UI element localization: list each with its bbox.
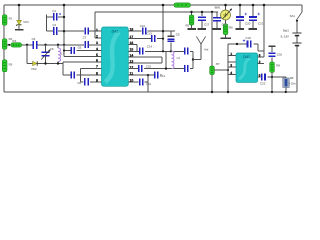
ground — [213, 28, 222, 30]
capacitor C12b — [139, 78, 141, 85]
wire C19 row — [228, 44, 264, 51]
svg-text:C1: C1 — [52, 9, 56, 13]
wire zener branch — [18, 5, 20, 30]
svg-text:9: 9 — [96, 78, 98, 82]
wire DA2 input rail — [227, 44, 229, 92]
inductor L2 — [172, 51, 174, 68]
wire pin4 row — [64, 50, 102, 52]
svg-text:BM1: BM1 — [215, 5, 221, 9]
svg-text:C21: C21 — [258, 21, 264, 25]
wire top supply rail — [4, 4, 302, 6]
svg-text:VD2: VD2 — [31, 67, 37, 71]
resistor R2 — [2, 39, 7, 49]
node top junction zener — [18, 4, 21, 7]
svg-text:SA1: SA1 — [290, 14, 296, 18]
svg-text:L2: L2 — [177, 56, 181, 60]
svg-text:Ant: Ant — [204, 48, 209, 52]
wire DA2 left pins — [228, 56, 236, 75]
capacitor C2 — [53, 27, 55, 35]
wire DA2 pin2 stub — [258, 63, 264, 65]
svg-text:R3: R3 — [9, 62, 13, 66]
resistor R4 — [11, 43, 22, 47]
wire volume rail — [211, 12, 213, 92]
wire tank right leg — [192, 51, 194, 68]
svg-text:6: 6 — [96, 59, 98, 63]
trimmer capacitor C5 — [45, 45, 47, 64]
svg-text:C14: C14 — [147, 44, 153, 48]
svg-text:C7: C7 — [83, 36, 87, 40]
svg-text:R6: R6 — [229, 25, 233, 29]
wire tank top row — [128, 50, 193, 52]
wire wiper row — [214, 69, 228, 71]
svg-text:C22: C22 — [260, 81, 266, 85]
wire C2 row / pin1 row — [47, 30, 102, 32]
wire left rail — [3, 5, 5, 92]
svg-text:4: 4 — [96, 47, 98, 51]
svg-text:R1: R1 — [9, 17, 13, 21]
capacitor C6 — [71, 47, 73, 54]
switch SA1 — [301, 5, 303, 12]
svg-text:C15: C15 — [146, 65, 152, 69]
capacitor C15 — [138, 65, 140, 72]
svg-text:L1: L1 — [61, 52, 65, 56]
IC DA2 — [236, 53, 258, 82]
capacitor hanging at IF rail end — [216, 12, 218, 29]
battery GB1 — [296, 21, 298, 92]
capacitor C13 — [151, 35, 153, 42]
svg-text:R7: R7 — [216, 62, 220, 66]
capacitor C3 — [33, 41, 35, 49]
svg-text:C5: C5 — [50, 47, 54, 51]
ground — [236, 28, 245, 30]
svg-text:7: 7 — [96, 65, 98, 69]
capacitor on pin8 row — [71, 72, 73, 79]
capacitor hanging on IF rail — [201, 12, 203, 29]
microphone BM1 — [221, 10, 231, 20]
capacitor C10 — [142, 28, 144, 35]
node junction on audio row — [26, 44, 28, 46]
svg-text:1: 1 — [96, 28, 98, 32]
svg-text:BF: BF — [290, 76, 294, 80]
wire pin8 branch — [63, 64, 102, 76]
ground — [220, 37, 231, 39]
wire pin14 pin13 link — [128, 57, 162, 63]
wire pin7 corner — [81, 68, 102, 82]
svg-text:2: 2 — [96, 35, 98, 39]
svg-text:C11: C11 — [146, 82, 151, 86]
svg-text:8: 8 — [96, 72, 98, 76]
wire osc rail — [162, 5, 164, 51]
wire bottom ground rail — [4, 91, 297, 93]
svg-text:DA2: DA2 — [243, 55, 250, 59]
resistor hanging on IF rail — [191, 12, 193, 29]
top filter electrolytic 2 — [252, 5, 254, 29]
svg-text:C13: C13 — [146, 32, 152, 36]
wire pin10 row — [128, 75, 148, 92]
wire tank bottom row — [128, 68, 193, 70]
wire C17 row — [258, 76, 272, 78]
svg-text:4: 4 — [230, 71, 232, 75]
wire mid rail — [63, 5, 65, 57]
svg-text:R9: R9 — [276, 63, 280, 67]
svg-text:C18: C18 — [222, 23, 228, 27]
capacitor C16 — [271, 46, 273, 52]
capacitor C9 — [170, 31, 172, 36]
wire pin5 row — [64, 56, 102, 58]
svg-text:5: 5 — [96, 53, 98, 57]
resistor R5 in supply rail — [174, 3, 190, 7]
svg-text:C12: C12 — [160, 74, 166, 78]
wire main audio row — [7, 44, 102, 46]
svg-text:C6: C6 — [78, 45, 82, 49]
svg-text:3: 3 — [96, 41, 98, 45]
svg-text:C2: C2 — [52, 23, 56, 27]
inductor L1 — [57, 45, 59, 64]
capacitor C17 — [261, 73, 263, 80]
top filter electrolytic 1 — [239, 5, 241, 29]
svg-text:C10: C10 — [140, 24, 146, 28]
wire pin11 row — [128, 74, 162, 76]
wire VD2 row — [27, 62, 102, 64]
capacitor C12 tank bottom — [184, 65, 186, 72]
svg-text:C9: C9 — [176, 32, 180, 36]
svg-text:1: 1 — [230, 52, 232, 56]
svg-text:C3: C3 — [32, 37, 36, 41]
wire tank left leg — [165, 51, 167, 68]
svg-text:C19: C19 — [245, 36, 251, 40]
wire pin18 row — [128, 30, 175, 32]
svg-text:R5: R5 — [185, 24, 189, 28]
capacitor C19 — [247, 40, 249, 47]
svg-text:R4: R4 — [12, 39, 16, 43]
capacitor C14 — [139, 48, 141, 55]
resistor R1 — [2, 15, 7, 25]
capacitor C11 top — [184, 48, 186, 55]
ground — [198, 28, 207, 30]
wire pin9 row — [81, 81, 102, 83]
IC DA1 — [102, 27, 129, 86]
speaker BF1 — [283, 78, 289, 87]
resistor R6 — [225, 20, 227, 38]
antenna W1 — [193, 44, 201, 60]
zener VD1 — [17, 20, 22, 26]
capacitor C4 — [84, 41, 86, 48]
svg-text:VD1: VD1 — [23, 20, 29, 24]
wire pin17 row — [128, 38, 163, 40]
svg-text:C20: C20 — [245, 21, 251, 25]
svg-text:C17: C17 — [204, 23, 210, 27]
ground — [249, 28, 258, 30]
wire varicap branch — [26, 45, 28, 64]
resistor R3 — [2, 60, 7, 72]
svg-text:9..13V: 9..13V — [281, 35, 289, 39]
svg-text:C16: C16 — [277, 53, 283, 57]
svg-text:3: 3 — [230, 63, 232, 67]
svg-text:C8: C8 — [77, 81, 81, 85]
wire supply drop to DA2 — [258, 5, 264, 57]
resistor R9 — [270, 62, 275, 72]
wire pin16 corner — [128, 45, 137, 52]
resistor R7 — [210, 66, 215, 75]
capacitor on pin11 row — [154, 72, 156, 79]
diode VD2 — [33, 61, 38, 66]
svg-text:Bat1: Bat1 — [283, 29, 289, 33]
capacitor C8 — [84, 78, 86, 85]
wire speaker feed — [272, 77, 286, 78]
capacitor C7 — [84, 28, 86, 35]
ground — [15, 29, 23, 31]
ground — [187, 28, 196, 30]
wire C1 row — [47, 15, 64, 32]
wire pin2 corner and IF rail — [95, 12, 218, 38]
capacitor C1 — [53, 13, 55, 21]
svg-text:8 Om: 8 Om — [289, 81, 297, 85]
svg-text:DA1: DA1 — [112, 30, 119, 34]
